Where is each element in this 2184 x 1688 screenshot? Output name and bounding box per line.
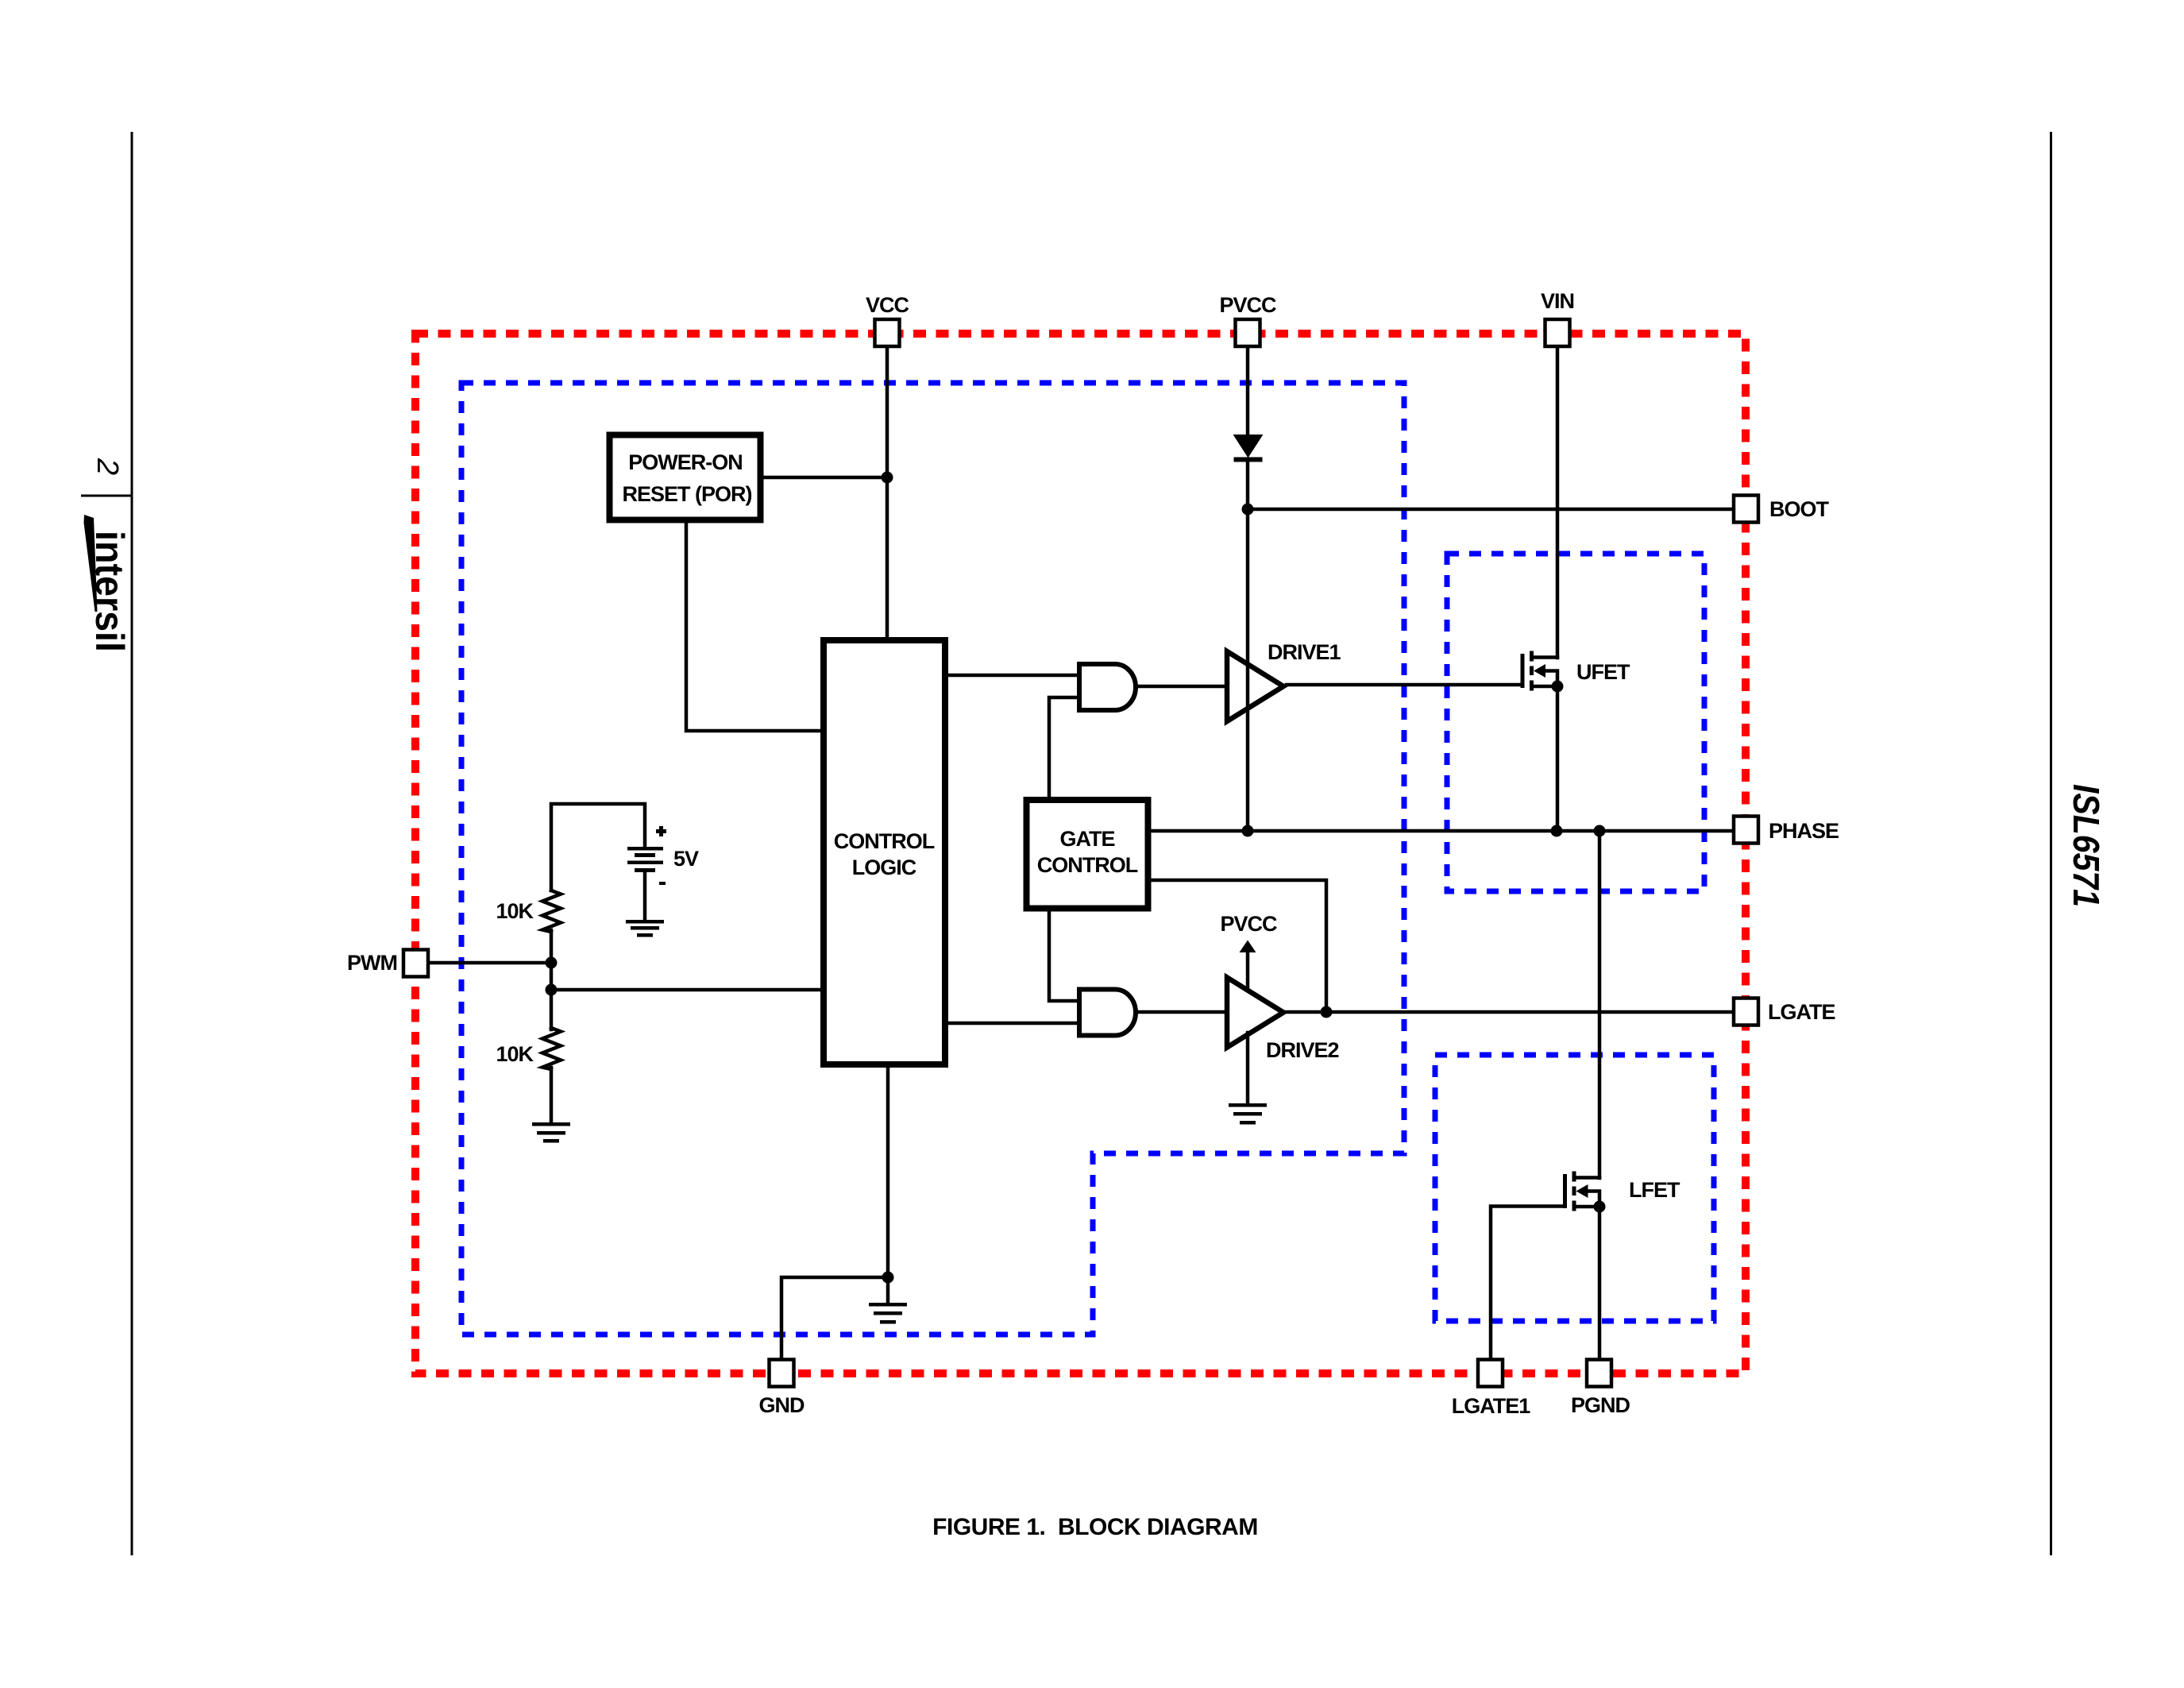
- svg-text:VCC: VCC: [866, 293, 909, 317]
- wire DRIVE1 output to UFET gate: [1287, 683, 1521, 687]
- wire UFET source to PHASE: [1556, 686, 1560, 831]
- pin PWM: [403, 950, 428, 977]
- diode D1: [1234, 435, 1263, 462]
- pin VCC: [875, 319, 900, 346]
- buffer DRIVE1: [1227, 651, 1283, 721]
- wire DRIVE2 to ground: [1246, 1033, 1250, 1104]
- ground at battery: [626, 920, 664, 937]
- svg-text:BOOT: BOOT: [1769, 497, 1830, 521]
- node junction BOOT: [1242, 504, 1254, 516]
- page number tick: [81, 495, 132, 497]
- wire PWM to divider: [427, 961, 551, 965]
- ground at divider: [532, 1122, 570, 1143]
- block GATE CONTROL: [1027, 800, 1148, 909]
- svg-text:PGND: PGND: [1571, 1393, 1630, 1417]
- wire LFET source to PGND: [1598, 1207, 1602, 1362]
- wire AND2 output to DRIVE2: [1134, 1010, 1225, 1014]
- svg-text:5V: 5V: [673, 847, 699, 871]
- svg-text:10K: 10K: [496, 1042, 534, 1066]
- LFET boundary (blue dashed): [1435, 1055, 1714, 1321]
- page right rule: [2050, 132, 2052, 1555]
- node junction UFET source / PHASE: [1551, 825, 1563, 837]
- wire CONTROL LOGIC bottom to ground: [886, 1066, 890, 1304]
- wire R1 bottom to node: [550, 930, 554, 990]
- label POWER-ON RESET (POR): [622, 450, 751, 506]
- wire GATE CONTROL to DRIVE2 output: [1148, 880, 1326, 1012]
- battery 5V: [627, 847, 663, 872]
- wire GND pin: [781, 1277, 888, 1361]
- label GATE CONTROL: [1037, 827, 1138, 877]
- wire R2 bottom to ground: [550, 1068, 554, 1123]
- svg-text:RESET (POR): RESET (POR): [622, 482, 751, 506]
- IC boundary (red dashed): [415, 334, 1746, 1373]
- pin PHASE: [1734, 817, 1758, 844]
- wire divider top to battery: [551, 804, 645, 890]
- svg-text:DRIVE2: DRIVE2: [1266, 1038, 1339, 1062]
- svg-text:GND: GND: [759, 1393, 805, 1417]
- intersil logo: [84, 515, 133, 652]
- svg-text:VIN: VIN: [1541, 289, 1574, 313]
- wire GATE CONTROL top to AND1 lower input: [1049, 697, 1077, 798]
- transistor LFET: [1563, 1172, 1606, 1213]
- AND gate G1: [1079, 664, 1136, 710]
- wire PHASE: [1148, 829, 1734, 833]
- wire node to R2 top: [550, 990, 554, 1029]
- node junction divider / CONTROL LOGIC: [546, 984, 558, 996]
- wire AND1 output to DRIVE1: [1134, 685, 1225, 689]
- PVCC supply arrow at DRIVE2: [1240, 941, 1256, 989]
- svg-text:2: 2: [91, 458, 124, 475]
- transistor UFET: [1521, 651, 1564, 693]
- wire divider to CONTROL LOGIC input: [551, 988, 822, 992]
- svg-text:ISL6571: ISL6571: [2066, 784, 2107, 907]
- battery plus label: [656, 826, 666, 836]
- driver section boundary (blue dashed): [461, 383, 1404, 1335]
- svg-text:PVCC: PVCC: [1220, 912, 1277, 936]
- wire GATE CONTROL bottom to AND2 upper input: [1049, 906, 1077, 1001]
- page left rule: [131, 132, 133, 1555]
- svg-text:UFET: UFET: [1576, 660, 1630, 684]
- node junction POR/VCC: [882, 472, 893, 484]
- svg-text:CONTROL: CONTROL: [834, 829, 935, 853]
- pin VIN: [1545, 319, 1570, 346]
- node junction GND wire: [882, 1272, 894, 1284]
- pin BOOT: [1734, 496, 1758, 523]
- label CONTROL LOGIC: [834, 829, 935, 879]
- svg-text:PHASE: PHASE: [1769, 819, 1839, 843]
- svg-text:PWM: PWM: [347, 951, 397, 975]
- wire PHASE to LFET drain: [1598, 831, 1602, 1178]
- wire POR bottom to CONTROL LOGIC: [686, 523, 822, 731]
- buffer DRIVE2: [1227, 978, 1283, 1048]
- node junction PWM / divider: [546, 957, 558, 969]
- pin PGND: [1587, 1360, 1611, 1387]
- wire CONTROL LOGIC to AND1 upper input: [945, 674, 1077, 678]
- ground at CONTROL LOGIC: [869, 1303, 907, 1324]
- svg-text:LGATE1: LGATE1: [1452, 1394, 1530, 1418]
- wire POR output to VCC line: [764, 476, 887, 480]
- resistor R2 10K: [542, 1028, 561, 1069]
- AND gate G2: [1079, 990, 1136, 1036]
- svg-text:DRIVE1: DRIVE1: [1268, 640, 1341, 664]
- wire LFET gate to LGATE1: [1491, 1207, 1564, 1362]
- UFET boundary (blue dashed): [1447, 554, 1704, 891]
- wire PVCC pin to diode: [1246, 346, 1250, 435]
- svg-text:FIGURE 1. BLOCK DIAGRAM: FIGURE 1. BLOCK DIAGRAM: [932, 1514, 1258, 1540]
- block CONTROL LOGIC: [824, 640, 945, 1064]
- svg-text:LFET: LFET: [1629, 1178, 1680, 1202]
- svg-text:LGATE: LGATE: [1768, 1000, 1835, 1024]
- svg-text:10K: 10K: [496, 899, 534, 923]
- wire LGATE: [1287, 1010, 1734, 1014]
- block POWER-ON RESET (POR) U1: [610, 435, 761, 520]
- wire CONTROL LOGIC to AND2 lower input: [945, 1022, 1077, 1026]
- node junction PVCC line / PHASE: [1242, 825, 1254, 837]
- node junction PHASE / LFET branch: [1594, 825, 1606, 837]
- pin PVCC: [1236, 319, 1260, 346]
- svg-text:LOGIC: LOGIC: [852, 856, 916, 879]
- wire VCC pin to CONTROL LOGIC: [886, 346, 889, 639]
- svg-text:PVCC: PVCC: [1219, 293, 1276, 317]
- svg-text:GATE: GATE: [1060, 827, 1115, 851]
- resistor R1 10K: [542, 890, 561, 932]
- ground at DRIVE2: [1229, 1103, 1267, 1125]
- pin GND: [770, 1360, 794, 1387]
- wire battery bottom to ground: [643, 871, 647, 921]
- wire BOOT: [1248, 508, 1734, 512]
- wire diode to PHASE node: [1246, 461, 1250, 831]
- svg-text:POWER-ON: POWER-ON: [628, 450, 743, 474]
- pin LGATE: [1734, 999, 1758, 1026]
- wire VIN pin to UFET drain: [1556, 346, 1560, 658]
- battery minus label: [659, 882, 666, 885]
- node junction DRIVE2 output: [1321, 1006, 1333, 1018]
- svg-text:CONTROL: CONTROL: [1037, 853, 1138, 877]
- pin LGATE1: [1478, 1360, 1503, 1387]
